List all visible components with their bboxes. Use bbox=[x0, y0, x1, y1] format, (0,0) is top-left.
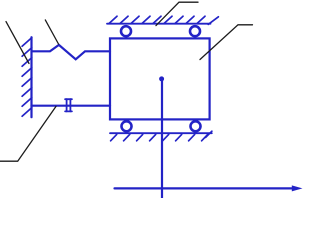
floor line (lower fixed guide) bbox=[110, 132, 212, 134]
axis X (horizontal line) bbox=[115, 187, 296, 189]
leader E (to mass) bbox=[200, 25, 253, 60]
leader A (to wall) bbox=[6, 22, 29, 64]
roller R1 (top left) bbox=[121, 26, 131, 36]
axis X arrowhead bbox=[292, 185, 303, 191]
wall W1 (left fixed support) bbox=[30, 37, 32, 117]
wall W1 hatching bbox=[22, 38, 32, 117]
ceiling hatching bbox=[109, 16, 218, 24]
ceiling line (upper fixed guide) bbox=[107, 23, 211, 25]
roller R3 (bottom left) bbox=[122, 121, 132, 131]
spring K1 bbox=[32, 45, 111, 59]
axis Y (vertical line) bbox=[161, 79, 163, 198]
floor hatching bbox=[111, 131, 212, 141]
mass block M bbox=[110, 38, 210, 119]
damper D1 symbol bbox=[65, 99, 72, 111]
leader C (to damper) bbox=[0, 106, 56, 161]
roller R4 (bottom right) bbox=[191, 121, 201, 131]
roller R2 (top right) bbox=[190, 26, 200, 36]
node C (centre dot) bbox=[159, 76, 164, 81]
leader B (to spring) bbox=[45, 20, 58, 44]
leader D (to ceiling) bbox=[156, 2, 198, 25]
damper rod (wire) bbox=[32, 105, 111, 107]
